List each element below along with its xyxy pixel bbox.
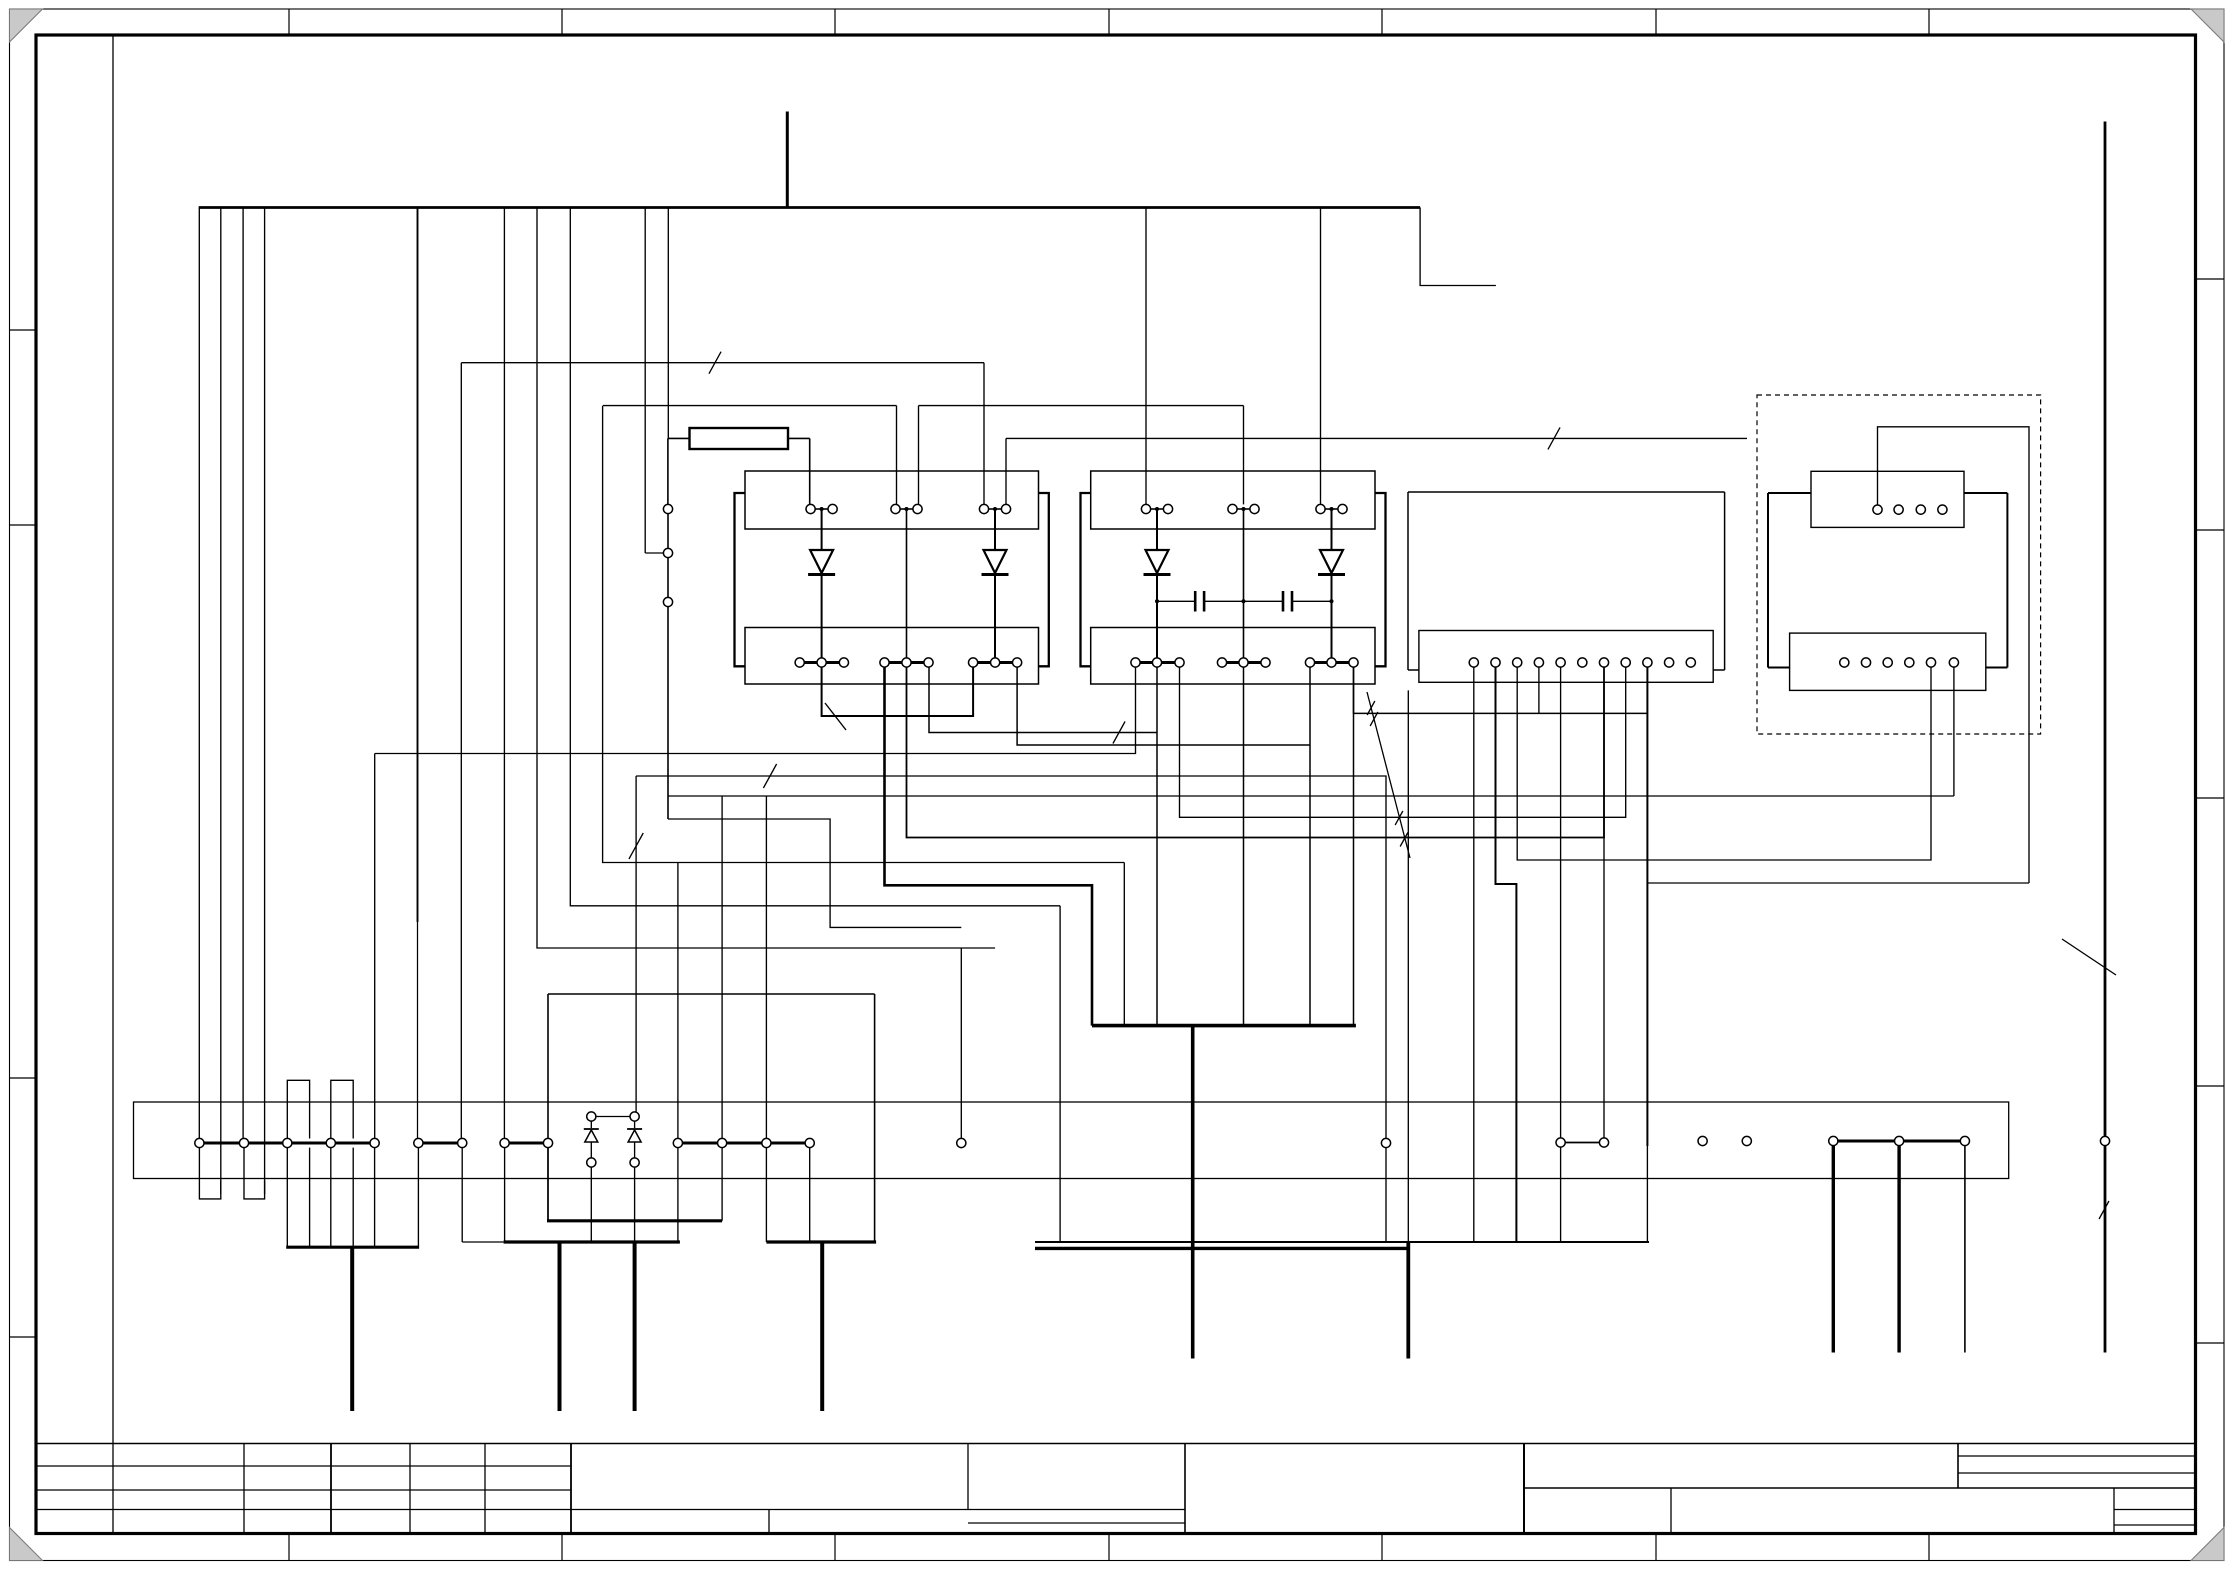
junction cap net a — [1155, 599, 1159, 603]
junction cap net c — [1330, 599, 1334, 603]
wire bus to terminal 6 upper — [417, 208, 419, 923]
wire to diode V1 — [821, 509, 823, 550]
X2 pin 3b — [1001, 504, 1010, 513]
wire terminal 7 drop — [461, 1148, 463, 1242]
wire drop to bottom bus — [1059, 906, 1061, 1243]
wire terminal 12 drop — [721, 1148, 723, 1221]
wire jog1 drop — [309, 1148, 311, 1248]
ground stub left thick — [350, 1247, 354, 1411]
wire drop to diode block — [635, 776, 637, 1112]
wire node to C1 — [1157, 600, 1195, 602]
wire bus to terminal 8 — [503, 208, 505, 1139]
wire diode terminal 1 drop — [590, 1167, 592, 1242]
wire resistor left lead — [668, 437, 690, 439]
dashed enclosure — [1757, 395, 2041, 734]
diode V1 — [808, 550, 835, 575]
wire X2 pin2 through — [906, 509, 908, 658]
X2 lower pin group 3 — [969, 658, 1022, 667]
wire elbow to rail — [462, 1241, 503, 1243]
diode V2 — [982, 550, 1009, 575]
X4 pin circles — [1469, 658, 1695, 667]
wire X2 group3 right run — [1017, 667, 1310, 745]
wire X3 group3 right to mid bus — [1353, 667, 1355, 1026]
ground stub mid thick 1 — [558, 1242, 562, 1411]
wire X3 pair 1 link — [1150, 508, 1164, 510]
X3 pin 3b — [1338, 504, 1347, 513]
wire net y363 to terminal 7 — [460, 363, 462, 1138]
wire X2 group2 left thick run to mid bus — [885, 667, 1093, 1026]
tick on group marker — [1367, 701, 1375, 715]
wire bus to link 2 — [264, 208, 266, 1195]
wire chain — [667, 558, 669, 598]
junction X3 pair 2 — [1242, 507, 1246, 511]
junction pin pair 3 — [993, 507, 997, 511]
terminal strip — [134, 1102, 2009, 1179]
wire to diode V3 — [1156, 509, 1158, 550]
terminal on right feeder — [2100, 1136, 2109, 1145]
ground stub strip B 1 — [1832, 1146, 1835, 1353]
diode V6 — [627, 1129, 642, 1142]
wire bus to link 1 — [220, 208, 222, 1195]
right feeder conductor — [2104, 122, 2107, 1353]
wire X3 group3 right to X4 drop — [1354, 667, 1648, 713]
mid distribution bus — [1092, 1024, 1356, 1028]
wire bus corner run 2 — [570, 208, 1060, 906]
resistor R1 — [690, 428, 789, 449]
tick on group marker — [1370, 712, 1378, 726]
wire X2 group2 right to X3 drop — [929, 667, 1157, 732]
wire diode V4 down — [1331, 575, 1333, 658]
wire — [634, 1142, 636, 1158]
wire bus to terminal 2 — [242, 208, 244, 1139]
wire chain stub — [645, 552, 663, 554]
bridge link jog 1 — [287, 1080, 309, 1138]
connector X5 lower header — [1790, 633, 1986, 690]
wire X4 pin5 through strip terminal to bottom bus — [1560, 667, 1562, 1242]
junction pin pair 1 — [820, 507, 824, 511]
wire pin pair 1 link — [815, 508, 829, 510]
ground stub center thick — [1191, 1026, 1195, 1359]
wire bus to terminal 1 — [198, 208, 200, 1139]
X2 pin 3a — [979, 504, 988, 513]
wire drop to mid bus — [1123, 863, 1125, 1026]
ground stub mid thick 3 — [820, 1242, 824, 1411]
wire net y438 to X2 pin 3b — [1005, 438, 1007, 504]
X3 pin 2b — [1250, 504, 1259, 513]
X5 lower pins — [1840, 658, 1959, 667]
wire X3 pair 3 link — [1325, 508, 1339, 510]
X2 pin 1a — [806, 504, 815, 513]
wire drop to connector pin — [983, 363, 985, 505]
wire X2 group2 center to X4 pin — [907, 667, 1605, 838]
wire chain net run y796 — [668, 795, 1954, 797]
strip B terminal 2 — [1599, 1138, 1608, 1147]
wire terminal 5 drop — [374, 1148, 376, 1248]
connector X3 upper housing — [1091, 471, 1375, 529]
top supply bus — [199, 206, 1420, 209]
diode V3 — [1144, 550, 1171, 575]
wire bus to X3 pin 1a — [1145, 208, 1147, 505]
wire diode terminal 2 drop — [634, 1167, 636, 1242]
wire net y406 to X2 pin 2a — [896, 406, 898, 505]
module K1 outline — [548, 994, 875, 1242]
X3 pin 3a — [1316, 504, 1325, 513]
wire terminal 3 drop — [286, 1148, 288, 1248]
strip B terminal 3 — [1698, 1136, 1707, 1145]
wire diode terminal run y776 — [636, 776, 1386, 1243]
wire diode V2 to lower pin — [994, 575, 996, 658]
bottom distribution bus lower — [1035, 1247, 1409, 1250]
net run y363 — [461, 362, 984, 364]
junction pin pair 2 — [905, 507, 909, 511]
junction X3 pair 3 — [1330, 507, 1334, 511]
wire net y406 to X2 pin 2b — [918, 406, 920, 505]
slash mark net y363 — [709, 352, 721, 374]
X3 pin 2a — [1228, 504, 1237, 513]
wire net y796 to terminal 12 — [721, 796, 723, 1138]
connector X3 lower housing — [1091, 628, 1375, 685]
wire X3 group3 left to mid bus — [1309, 667, 1311, 1026]
wire X5 upper pin feed loop — [1878, 427, 2030, 883]
X2 pin 2a — [891, 504, 900, 513]
X3 lower pin group 3 — [1305, 658, 1358, 667]
slash mark net y776 — [763, 764, 776, 788]
connector X2 left shell bracket — [735, 493, 746, 666]
X3 lower pin group 2 — [1217, 658, 1270, 667]
strip A terminal link group 3 — [505, 1142, 548, 1145]
strip B terminal 4 — [1742, 1136, 1751, 1145]
group marker diagonal — [1367, 692, 1410, 858]
X2 pin 1b — [828, 504, 837, 513]
connector X3 right shell bracket — [1375, 493, 1386, 666]
slash mark net y732 — [1113, 722, 1125, 744]
wire net y406 to X3 pair 2 center — [1243, 406, 1245, 505]
connector X2 right shell bracket — [1039, 493, 1049, 666]
slash mark lower right feeder — [2099, 1201, 2109, 1219]
junction cap net b — [1242, 599, 1246, 603]
capacitor C1 — [1195, 591, 1204, 612]
tick on group marker — [1395, 811, 1403, 825]
wire X4 pin9 to bottom bus — [1646, 1146, 1648, 1242]
strip A terminal link group 2 — [418, 1142, 462, 1145]
wire strip B 7 drop — [1964, 1146, 1966, 1353]
diode block terminal 2 bottom — [630, 1158, 639, 1167]
wire — [590, 1142, 592, 1158]
wire terminal 14 drop — [809, 1148, 811, 1242]
wire chain — [667, 514, 669, 549]
wire terminal 9 drop — [547, 1148, 549, 1221]
X2 lower pin group 2 — [880, 658, 933, 667]
wire X3 pin2 through — [1243, 509, 1245, 658]
bridge link jog 2 — [331, 1080, 353, 1138]
wire terminal 5 long run — [375, 667, 1136, 753]
ground stub mid thick 2 — [633, 1242, 637, 1411]
wire pin pair 3 link — [988, 508, 1002, 510]
lone terminal a — [957, 1138, 966, 1147]
wire C1 to C2 — [1204, 600, 1283, 602]
diode V5 — [584, 1129, 599, 1142]
wire X4 shell drop — [1407, 690, 1409, 1242]
net run y406 segment 1 — [603, 405, 897, 407]
wire resistor right lead — [788, 437, 810, 439]
wire X4 pin4 stub — [1538, 667, 1540, 714]
connector X4 pin strip — [1419, 631, 1713, 683]
ground stub strip B 2 — [1897, 1146, 1900, 1353]
wire chain corner to net y817 west — [668, 819, 961, 927]
wire up to X5 lower pin 6 — [1953, 667, 1955, 796]
ground rail mid 2 — [504, 1240, 680, 1243]
strip A terminal link group 4 — [678, 1142, 810, 1145]
X2 pin 2b — [913, 504, 922, 513]
diode block terminal 2 top — [630, 1112, 639, 1121]
junction X3 pair 1 — [1155, 507, 1159, 511]
strip B terminal 6 — [1895, 1136, 1904, 1145]
connector X3 left shell bracket — [1081, 493, 1091, 666]
wire diode block top link — [596, 1116, 630, 1118]
wire net y796 to terminal 13 — [765, 796, 767, 1138]
wire resistor to connector pin — [809, 438, 811, 504]
wire X2 group1 to group3 link — [822, 667, 974, 716]
bridge link U 1 — [199, 1148, 220, 1199]
wire X4 pin to X5 lower pin 5 — [1517, 667, 1931, 860]
wire X4 pin8 to strip B terminal 2 — [1603, 682, 1605, 1138]
wire bus to X3 pin 3a — [1320, 208, 1322, 505]
wire diode V1 to lower pin — [821, 575, 823, 658]
wire X3 group1 center to mid bus — [1156, 667, 1158, 1026]
lone terminal b — [1381, 1138, 1390, 1147]
wire to diode V4 — [1331, 509, 1333, 550]
wire X3 group2 center to mid bus — [1243, 667, 1245, 1026]
ground rail mid 3 — [766, 1240, 876, 1243]
wire X4 pin1 to bottom bus — [1473, 667, 1475, 1242]
strip B terminal 7 — [1960, 1136, 1969, 1145]
wire bus to terminal 6 lower — [417, 922, 419, 1138]
wire jog2 drop — [352, 1148, 354, 1248]
slash mark net y438 — [1548, 427, 1560, 449]
X2 lower pin group 1 — [795, 658, 848, 667]
wire — [634, 1121, 636, 1128]
tick on group marker — [1400, 833, 1408, 847]
wire X3 pair 2 link — [1237, 508, 1251, 510]
X3 lower pin group 1 — [1131, 658, 1184, 667]
wire diode V3 down — [1156, 575, 1158, 658]
ground rail left — [286, 1246, 419, 1249]
bottom distribution bus upper — [1035, 1241, 1649, 1243]
X5 upper pins — [1873, 505, 1947, 514]
capacitor C2 — [1283, 591, 1292, 612]
wire terminal 8 drop — [504, 1148, 506, 1242]
terminal circle chain 3 — [663, 597, 672, 606]
wire net y862 to terminal 11 — [677, 863, 679, 1139]
strip B terminal 1 — [1556, 1138, 1565, 1147]
diode block terminal 1 bottom — [587, 1158, 596, 1167]
diode V4 — [1318, 550, 1345, 575]
wire C2 to node — [1292, 600, 1332, 602]
wire terminal 6 drop — [417, 1148, 419, 1248]
net run y406 segment 2 — [919, 405, 1244, 407]
wire terminal 11 drop — [677, 1148, 679, 1242]
wire X4 pin9 upper — [1646, 667, 1648, 1146]
strip A terminal link group 1 — [199, 1142, 374, 1145]
connector X5 upper header — [1811, 471, 1964, 527]
strip A terminals — [195, 1138, 815, 1147]
wire chain down with T to horizontal runs — [667, 607, 669, 819]
terminal circle chain 2 — [663, 548, 672, 557]
wire X4 pin3 jog to bottom bus — [1496, 667, 1517, 1242]
wire net y406 corner run — [603, 406, 1125, 863]
wire strip B link 1 — [1565, 1142, 1599, 1144]
connector X2 upper housing — [745, 471, 1039, 529]
wire drop to terminal 5 — [374, 754, 376, 1139]
X3 pin 1a — [1141, 504, 1150, 513]
wire bus end step — [1420, 208, 1496, 286]
connector X2 lower housing — [745, 628, 1039, 685]
connector X5 shell — [1768, 493, 2007, 668]
strip B terminal 5 — [1829, 1136, 1838, 1145]
wire X5 loop to X4 drop — [1647, 882, 2029, 884]
slash mark on link — [825, 703, 846, 730]
slash mark on right feeder — [2062, 939, 2116, 975]
slash mark on diode feeder — [629, 833, 643, 859]
wire bus to chain circle — [644, 208, 646, 554]
net run y438 — [1006, 437, 1747, 439]
wire X3 group1 right to X4 pin — [1180, 667, 1626, 818]
X3 pin 1b — [1163, 504, 1172, 513]
strip B terminal group link — [1833, 1140, 1965, 1143]
diode block terminal 1 top — [587, 1112, 596, 1121]
wire left border vertical — [112, 35, 114, 1444]
wire terminal 4 drop — [330, 1148, 332, 1248]
terminal circle chain 1 — [663, 504, 672, 513]
wire pin pair 2 link — [900, 508, 914, 510]
wire terminal 13 drop — [765, 1148, 767, 1242]
ground rail mid 1 — [547, 1219, 722, 1222]
wire to diode V2 — [994, 509, 996, 550]
wire — [590, 1121, 592, 1128]
supply feed stub — [786, 112, 789, 209]
bridge link U 2 — [244, 1148, 265, 1199]
ground stub right of center — [1406, 1242, 1410, 1359]
wire bus to resistor node — [667, 208, 669, 439]
wire junction drop to lone terminal — [960, 948, 962, 1138]
wire bus corner run to connector X1 pin — [537, 208, 995, 949]
connector X4 housing — [1408, 492, 1725, 670]
wire down to chain — [667, 438, 669, 504]
